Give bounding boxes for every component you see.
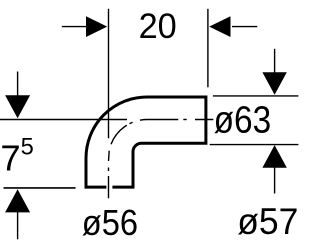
svg-text:5: 5 <box>21 135 34 161</box>
svg-text:ø63: ø63 <box>214 99 272 141</box>
svg-text:7: 7 <box>0 138 20 179</box>
svg-text:ø57: ø57 <box>237 200 298 242</box>
svg-text:20: 20 <box>139 6 177 46</box>
svg-text:ø56: ø56 <box>82 203 138 243</box>
